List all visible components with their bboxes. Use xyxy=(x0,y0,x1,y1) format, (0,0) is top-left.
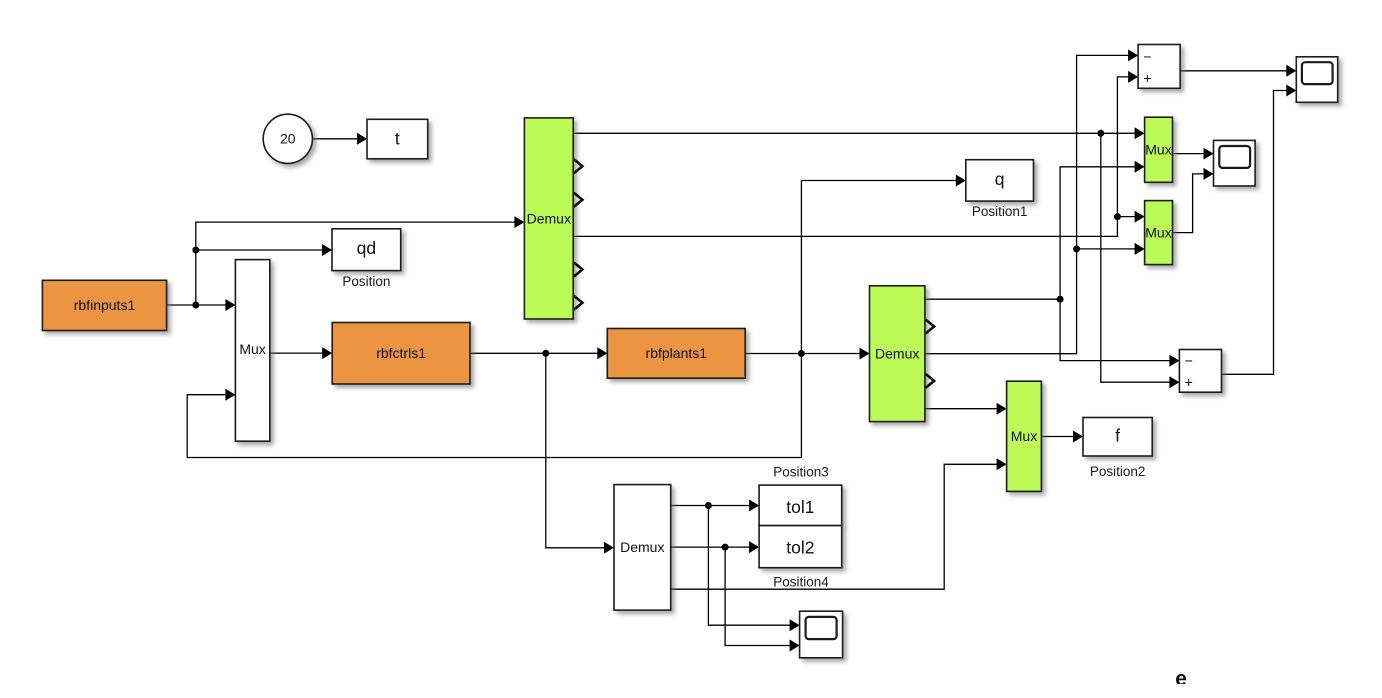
wire branch up to q xyxy=(801,181,957,354)
arrow into Mux1 in1 xyxy=(1135,127,1145,139)
svg-text:Mux: Mux xyxy=(1145,224,1171,240)
wire branch to Demux1 input xyxy=(196,222,516,250)
mux block Mux2 (green small bottom) xyxy=(1145,201,1173,265)
junction rbfplants1 out branch xyxy=(798,350,805,357)
arrow into Scope3 in2 xyxy=(790,640,800,652)
outport block tol2 xyxy=(759,526,842,568)
chevron Demux2 port2 xyxy=(926,320,935,334)
outport block tol1 xyxy=(759,485,842,525)
junction Mux2 in2 branch xyxy=(1073,245,1080,252)
svg-text:−: − xyxy=(1143,49,1151,65)
arrow into Scope1 in1 xyxy=(1286,65,1296,77)
arrow into Mux in1 xyxy=(225,299,235,311)
label Position4 xyxy=(773,575,829,590)
arrow into Mux3 in1 xyxy=(997,403,1007,415)
svg-text:Position3: Position3 xyxy=(773,465,829,480)
scope block Scope2 xyxy=(1214,140,1256,186)
junction rbfinputs1 branch xyxy=(192,302,199,309)
label Position1 xyxy=(972,204,1028,219)
outport block q xyxy=(966,160,1034,201)
label Position3 xyxy=(773,465,829,480)
arrow into Mux3 in2 xyxy=(997,458,1007,470)
subsystem rbfctrls1 xyxy=(332,323,470,385)
arrow into Sum1 minus xyxy=(1128,49,1138,61)
wire Demux2 port5 to Mux3 in1 xyxy=(925,408,998,410)
wire rbfinputs1 to Mux in1 xyxy=(167,304,227,306)
chevron Demux1 port5 xyxy=(574,263,583,277)
arrow into f xyxy=(1073,431,1083,443)
wire rbfctrls1 to rbfplants1 xyxy=(470,352,599,354)
demux block Demux1 (green tall) xyxy=(524,118,573,319)
scope block Scope3 (bottom) xyxy=(800,611,843,658)
junction qd branch xyxy=(192,247,199,254)
svg-text:rbfplants1: rbfplants1 xyxy=(646,345,708,361)
constant circle 20 xyxy=(263,114,312,163)
junction Demux3 port2 branch xyxy=(722,544,729,551)
junction Mux2 in1 branch xyxy=(1114,213,1121,220)
wire branch down to Sum2 plus xyxy=(1101,133,1171,382)
wire branch down to Scope3 in1 xyxy=(708,506,790,626)
svg-text:−: − xyxy=(1185,353,1193,369)
arrow into Mux2 in1 xyxy=(1135,211,1145,223)
svg-text:+: + xyxy=(1185,374,1193,390)
wire feedback from rbfplants1 out to Mux in2 xyxy=(187,354,801,458)
arrow into t xyxy=(357,133,367,145)
svg-text:Position1: Position1 xyxy=(972,204,1028,219)
scope block Scope1 (top right) xyxy=(1296,57,1337,103)
arrow into Scope2 in2 xyxy=(1204,168,1214,180)
wire branch to qd xyxy=(196,250,324,305)
arrow into Demux3 xyxy=(604,542,614,554)
svg-text:+: + xyxy=(1143,70,1151,86)
wire branch down to Scope3 in2 xyxy=(725,547,790,645)
sum block Sum2 xyxy=(1179,350,1221,393)
wire Demux2 port3 up to Sum1 minus xyxy=(925,55,1130,353)
chevron Demux1 port3 xyxy=(574,193,583,207)
wire Mux1 out to Scope2 in1 xyxy=(1173,153,1206,155)
arrow into Mux1 in2 xyxy=(1135,161,1145,173)
outport block f xyxy=(1083,418,1152,457)
arrow into Sum2 plus xyxy=(1169,376,1179,388)
chevron Demux1 port2 xyxy=(574,159,583,173)
arrow into Scope3 in1 xyxy=(790,619,800,631)
svg-text:Demux: Demux xyxy=(527,211,571,227)
svg-text:Position: Position xyxy=(342,274,390,289)
junction Demux1 port1 branch xyxy=(1097,130,1104,137)
wire Mux3 out to f xyxy=(1041,436,1074,438)
arrow into rbfplants1 xyxy=(597,347,607,359)
wire branch to Mux2 in1 xyxy=(1117,216,1135,218)
arrow into Demux2 xyxy=(860,348,870,360)
arrow into tol1 xyxy=(749,500,759,512)
junction Demux3 port1 branch xyxy=(705,502,712,509)
svg-text:rbfinputs1: rbfinputs1 xyxy=(74,297,136,313)
svg-text:f: f xyxy=(1115,426,1120,446)
subsystem rbfplants1 xyxy=(607,329,745,379)
arrow into Mux2 in2 xyxy=(1135,243,1145,255)
wire const20 to t xyxy=(313,138,358,140)
svg-text:Position2: Position2 xyxy=(1090,464,1146,479)
arrow into Scope2 in1 xyxy=(1204,148,1214,160)
chevron Demux1 port6 xyxy=(574,296,583,310)
arrow into Sum2 minus xyxy=(1169,355,1179,367)
wire Sum1 out to Scope1 in1 xyxy=(1180,70,1287,72)
junction rbfctrls1 out branch xyxy=(542,350,549,357)
arrow into q xyxy=(956,175,966,187)
mux block Mux (white) xyxy=(235,260,269,442)
mux block Mux3 (green center) xyxy=(1007,381,1042,491)
mux block Mux1 (green small top) xyxy=(1145,117,1173,182)
wire Demux1 port1 to Mux1 in1 xyxy=(573,132,1135,134)
arrow into qd xyxy=(322,244,332,256)
wire Demux2 port1 up to Mux1 in2 xyxy=(925,167,1136,299)
sum block Sum1 xyxy=(1138,45,1180,89)
svg-text:tol2: tol2 xyxy=(786,538,814,558)
label e (clipped at bottom) xyxy=(1175,668,1187,691)
outport block qd xyxy=(332,229,401,271)
wire Mux out to rbfctrls1 xyxy=(270,352,324,354)
wire Demux1 port4 to Sum1 plus xyxy=(573,77,1129,237)
label Position2 xyxy=(1090,464,1146,479)
svg-text:20: 20 xyxy=(280,131,296,147)
arrow into rbfctrls1 xyxy=(322,347,332,359)
svg-text:Demux: Demux xyxy=(620,539,664,555)
demux block Demux2 (green) xyxy=(870,286,925,422)
wire branch to Mux2 in2 xyxy=(1077,248,1136,250)
wire rbfplants1 to Demux2 input xyxy=(745,353,861,355)
wire Demux3 port1 to tol1 xyxy=(671,505,750,507)
svg-text:tol1: tol1 xyxy=(786,497,814,517)
arrow into Demux1 xyxy=(514,216,524,228)
demux block Demux3 (white) xyxy=(614,485,671,610)
chevron Demux2 port4 xyxy=(926,374,935,388)
arrow into Scope1 in2 xyxy=(1286,85,1296,97)
subsystem rbfinputs1 xyxy=(42,280,166,330)
svg-text:Mux: Mux xyxy=(239,341,265,357)
wire branch down to Demux3 input xyxy=(546,353,606,548)
wire branch down to Sum2 minus xyxy=(1060,299,1170,360)
ARROWHEADS xyxy=(225,49,1296,651)
arrow into Mux in2 xyxy=(225,389,235,401)
outport block t xyxy=(367,119,428,159)
arrow into tol2 xyxy=(749,541,759,553)
label Position xyxy=(342,274,390,289)
wire Sum2 out to Scope1 in2 xyxy=(1222,91,1288,375)
wire Demux3 port2 to tol2 xyxy=(671,546,750,548)
wire Mux2 out to Scope2 in2 xyxy=(1173,174,1206,233)
svg-text:Demux: Demux xyxy=(875,346,919,362)
svg-text:qd: qd xyxy=(357,238,376,258)
svg-text:q: q xyxy=(995,169,1005,189)
junction Demux2 port1 branch xyxy=(1057,296,1064,303)
svg-text:Position4: Position4 xyxy=(773,575,829,590)
svg-text:rbfctrls1: rbfctrls1 xyxy=(376,345,426,361)
svg-text:t: t xyxy=(395,129,400,149)
svg-text:Mux: Mux xyxy=(1011,428,1037,444)
svg-text:Mux: Mux xyxy=(1145,142,1171,158)
wire Demux3 port3 to Mux3 in2 xyxy=(671,464,998,589)
arrow into Sum1 plus xyxy=(1128,71,1138,83)
